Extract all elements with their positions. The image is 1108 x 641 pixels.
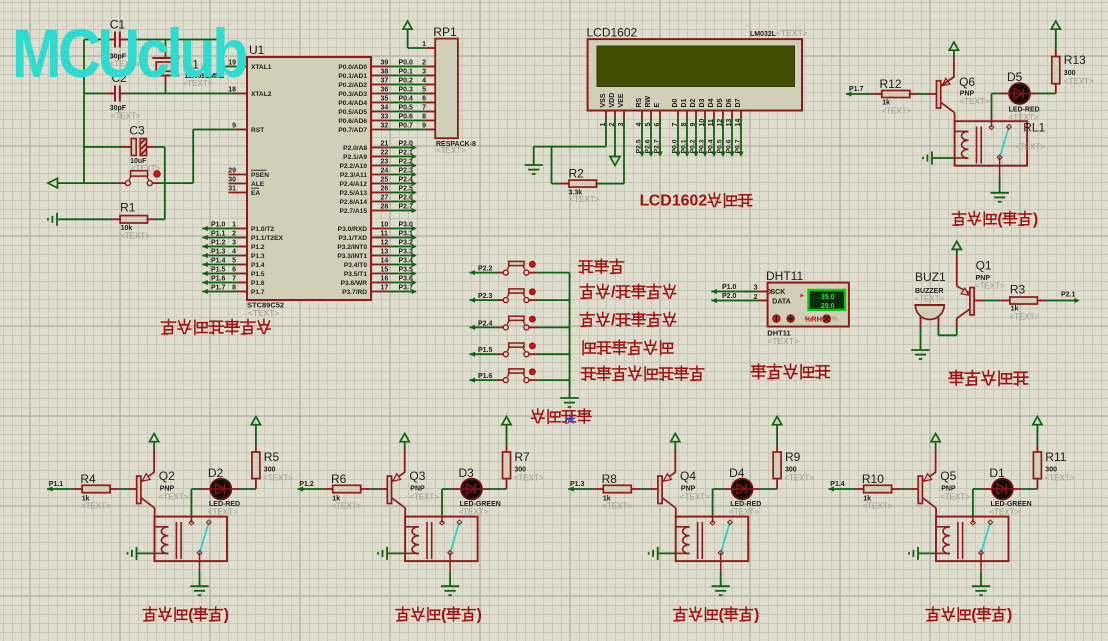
wire Q2 collector to relay [154,508,156,517]
wire C2 right / XTAL2 net [120,93,128,95]
svg-text:P1.4: P1.4 [211,257,226,264]
svg-text:P0.6/AD6: P0.6/AD6 [338,118,367,125]
svg-text:P1.6: P1.6 [478,373,493,380]
U1 pin 19 XTAL1 [238,66,247,68]
svg-text:/: / [611,312,616,329]
svg-text:PNP: PNP [681,486,696,493]
svg-text:P1.5: P1.5 [478,347,493,354]
caption 继电器(除湿) [926,607,939,621]
U1 pin 10 P3.0/RXD [371,228,390,230]
svg-text:4: 4 [232,248,236,255]
svg-text:8: 8 [232,284,236,291]
terminal P2.4 wire [470,325,476,330]
power terminal above Q1 [952,241,961,249]
transistor Q2 PNP [137,476,141,503]
capacitor C1 [114,32,116,48]
wire relay output to ground Q3 [449,572,451,585]
svg-text:2: 2 [232,230,236,237]
U1 pin 4 P1.3 [238,255,247,257]
power terminal above R5 [251,417,260,425]
U1 pin 28 P2.7/A15 [371,210,390,212]
wire net P3.2 [390,246,412,248]
svg-text:P0.1: P0.1 [681,139,688,153]
svg-text:0: 0 [690,192,699,209]
wire net P2.6 [390,201,412,203]
wire buttons common vertical [569,273,571,398]
wire Q1 emitter [956,255,958,286]
ground for LCD VSS [525,164,543,166]
svg-text:P2.6: P2.6 [399,194,414,201]
terminal P1.4 wire [202,262,208,267]
U1 pin 22 P2.1/A9 [371,156,390,158]
wire net P2.4 [390,183,412,185]
svg-text:P2.0: P2.0 [722,293,737,300]
wire D4 anode [713,488,724,490]
svg-text:P2.0/A8: P2.0/A8 [343,145,367,152]
svg-text:Q3: Q3 [409,469,425,483]
svg-text:<TEXT>: <TEXT> [1045,474,1075,483]
svg-text:PSEN: PSEN [251,172,269,179]
wire RL1 output to ground [999,177,1001,192]
wire Q3 emitter [404,449,406,472]
svg-text:1k: 1k [882,100,890,107]
svg-text:BUZ1: BUZ1 [915,270,946,284]
svg-text:22: 22 [381,149,389,156]
svg-text:Q1: Q1 [976,259,992,273]
svg-text:): ) [754,606,759,623]
wire P2.2 button to common [529,272,537,274]
svg-text:P2.2: P2.2 [478,266,493,273]
wire net P2.7 [390,210,412,212]
caption 继电器(加湿) [674,607,687,621]
svg-text:R6: R6 [331,472,347,486]
RP1 pin 2 [426,66,436,68]
wire LCD net P0.5 [722,119,724,153]
wire R1 right lead [148,218,157,220]
svg-text:17: 17 [381,284,389,291]
svg-text:P1.2: P1.2 [299,481,314,488]
svg-text:P3.7: P3.7 [399,284,414,291]
wire net P3.4 [390,264,412,266]
wire R11 to power [1036,446,1038,452]
svg-text:P3.4/T0: P3.4/T0 [344,262,367,269]
svg-text:/: / [611,284,616,301]
svg-text:PNP: PNP [941,486,956,493]
terminal P1.2 wire [202,244,208,249]
wire P2.4 button to common [529,326,537,328]
svg-text:25: 25 [381,176,389,183]
RP1 pin 5 [426,93,436,95]
wire C3 right lead to R1 column [147,146,156,148]
push button reset [125,181,130,186]
wire VSS-R2 junction column [551,147,553,184]
wire D5 cathode to R13 [1030,93,1038,95]
RP1 pin 3 [426,75,436,77]
svg-text:P1.1/T2EX: P1.1/T2EX [251,235,283,242]
wire Q6 emitter [953,58,955,77]
U1 pin 14 P3.4/T0 [371,264,390,266]
svg-text:<TEXT>: <TEXT> [1015,143,1045,152]
wire Q5 emitter [935,449,937,472]
wire net P3.0 [390,228,412,230]
svg-text:P2.1/A9: P2.1/A9 [343,154,367,161]
wire net P2.1 [390,156,412,158]
U1 pin 36 P0.3/AD3 [371,93,390,95]
U1 pin 30 ALE [229,183,248,185]
wire LCD VEE down to R2 [623,119,625,184]
wire LCD VDD to power [614,119,616,157]
svg-text:P2.7/A15: P2.7/A15 [340,208,368,215]
svg-text:R12: R12 [880,77,902,91]
power terminal above R7 [502,417,511,425]
svg-text:<TEXT>: <TEXT> [863,502,893,511]
caption 按键设置 [532,409,544,423]
svg-text:P2.6: P2.6 [645,139,652,153]
svg-text:P1.2: P1.2 [211,239,226,246]
svg-text:R10: R10 [862,472,884,486]
svg-text:R9: R9 [785,450,801,464]
wire net P0.6 U1 to RP1 [390,120,426,122]
svg-text:VEE: VEE [618,93,625,107]
push button for P2.4 [503,325,508,330]
wire R8 to Q4 base [631,488,641,490]
caption 蜂鸣器报警 [949,371,963,386]
svg-text:D7: D7 [735,98,742,107]
svg-text:4: 4 [422,77,426,84]
terminal P1.2 wire [298,486,304,491]
U1 pin 26 P2.5/A13 [371,192,390,194]
wire net P2.0 [390,147,412,149]
svg-text:P1.7: P1.7 [849,86,864,93]
svg-text:P3.7/RD: P3.7/RD [342,289,367,296]
svg-text:P0.3/AD3: P0.3/AD3 [338,91,367,98]
svg-text:<TEXT>: <TEXT> [940,493,970,502]
svg-text:35.0: 35.0 [821,294,835,301]
wire LCD net P2.7 [659,119,661,153]
svg-text:P2.5/A13: P2.5/A13 [340,190,368,197]
svg-text:P3.4: P3.4 [399,257,414,264]
wire R12 to Q6 base [910,93,918,95]
power terminal above Q4 [671,434,680,442]
svg-text:P3.1/TXD: P3.1/TXD [338,235,367,242]
U1 pin 6 P1.5 [238,273,247,275]
terminal P1.3 wire [202,253,208,258]
svg-text:VDD: VDD [609,93,616,108]
caption 继电器状态设置键 [581,368,595,380]
wire relay common to D1 [972,489,974,515]
relay for Q5 [936,517,1009,562]
svg-text:7: 7 [232,275,236,282]
svg-text:Q5: Q5 [940,469,956,483]
U1 pin 1 P1.0/T2 [238,228,247,230]
U1 pin 17 P3.7/RD [371,291,390,293]
RP1 pin 4 [426,84,436,86]
svg-text:E: E [654,103,661,108]
svg-text:38: 38 [381,68,389,75]
terminal P1.4 wire [829,486,835,491]
svg-text:P2.6/A14: P2.6/A14 [340,199,368,206]
svg-text:<TEXT>: <TEXT> [570,195,600,204]
terminal P2.3 wire [470,298,476,303]
power terminal above Q2 [150,434,159,442]
RP1 pin 9 [426,129,436,131]
wire D1 anode [973,488,984,490]
svg-text:R11: R11 [1045,450,1066,464]
wire net P2.5 [390,192,412,194]
svg-text:P0.5: P0.5 [717,139,724,153]
svg-text:R13: R13 [1064,53,1086,67]
DHT11 red marker arrow [800,294,804,298]
caption 设置键 [579,261,593,273]
svg-text:R8: R8 [602,472,618,486]
wire RP1 pin 1 [408,47,426,49]
wire LCD net P0.4 [713,119,715,153]
power terminal above R13 [1051,21,1060,29]
wire Q1 collector to buzzer [956,319,958,328]
power terminal above Q6 [949,42,958,50]
U1 pin 16 P3.6/WR [371,282,390,284]
svg-text:<TEXT>: <TEXT> [248,308,280,318]
svg-text:3: 3 [754,285,758,292]
caption 单片机最小系统 [161,320,175,335]
svg-text:26: 26 [381,185,389,192]
svg-text:R7: R7 [514,450,530,464]
svg-text:2: 2 [698,192,707,209]
terminal P2.1 wire [1037,300,1046,302]
ground tap for RL1 coil [931,152,933,165]
wire LCD net P2.6 [650,119,652,153]
resistor pack RP1 RESPACK-8 body [435,39,458,139]
svg-text:9: 9 [232,122,236,129]
RP1 pin 8 [426,120,436,122]
svg-text:P2.2: P2.2 [399,158,414,165]
svg-text:<TEXT>: <TEXT> [459,508,489,517]
U1 pin 38 P0.1/AD1 [371,75,390,77]
wire P1.5 button to common [529,353,537,355]
svg-text:6: 6 [232,266,236,273]
svg-text:P1.1: P1.1 [211,230,226,237]
svg-text:P3.6/WR: P3.6/WR [341,280,368,287]
wire C2 left to junction column [106,93,115,95]
svg-text:14: 14 [381,257,389,264]
terminal P1.1 wire [47,486,53,491]
svg-text:D0: D0 [672,98,679,107]
wire net P3.1 [390,237,412,239]
wire C3 left lead [122,146,131,148]
svg-text:9: 9 [422,122,426,129]
wire LCD net P0.6 [731,119,733,153]
svg-text:<TEXT>: <TEXT> [975,282,1005,291]
svg-text:P0.7: P0.7 [399,122,414,129]
wire reset rail [58,182,119,184]
svg-text:<TEXT>: <TEXT> [1009,113,1039,122]
svg-text:300: 300 [264,467,276,474]
svg-text:<TEXT>: <TEXT> [989,508,1019,517]
wire ground column for C1 C2 [83,40,85,184]
svg-text:<TEXT>: <TEXT> [602,502,632,511]
svg-text:RP1: RP1 [433,25,457,39]
U1 pin 34 P0.5/AD5 [371,111,390,113]
svg-text:39: 39 [381,59,389,66]
svg-text:<TEXT>: <TEXT> [881,107,911,116]
svg-text:35: 35 [381,95,389,102]
wire LCD net P0.2 [695,119,697,153]
svg-text:300: 300 [514,467,526,474]
svg-text:P3.3: P3.3 [399,248,414,255]
wire net P2.2 [390,165,412,167]
ground for relay Q4 [712,585,730,587]
caption 加键/模式切换 [580,284,594,298]
svg-text:ALE: ALE [251,181,265,188]
svg-text:7: 7 [422,104,426,111]
svg-text:33: 33 [381,113,389,120]
caption 减键/开启定时 [580,312,594,326]
svg-text:P2.5: P2.5 [399,185,414,192]
wire R6 to Q3 base [361,488,371,490]
svg-text:LM032L: LM032L [750,31,777,38]
IC U1 STC89C52 body [247,57,371,300]
wire R1 left to ground [111,218,120,220]
svg-text:2: 2 [422,59,426,66]
ground for R1 [56,213,58,226]
ground for relay Q2 [190,585,208,587]
svg-text:P0.7: P0.7 [735,139,742,153]
svg-text:): ) [477,606,482,623]
svg-text:P0.2: P0.2 [399,77,414,84]
svg-text:P3.6: P3.6 [399,275,414,282]
svg-text:<TEXT>: <TEXT> [263,474,293,483]
svg-text:P2.3: P2.3 [478,293,493,300]
wire relay output to ground Q4 [720,572,722,585]
svg-text:RL1: RL1 [1023,121,1045,135]
svg-text:P2.7: P2.7 [399,203,414,210]
svg-text:P0.4: P0.4 [399,95,414,102]
wire R10 to Q5 base [892,488,902,490]
wire C1 right / XTAL1 net [120,39,128,41]
svg-text:1: 1 [422,41,426,48]
ground tap for relay coil Q5 [917,547,919,560]
ground tap for relay coil Q4 [657,547,659,560]
wire P1.6 button to common [529,379,537,381]
power terminal above R11 [1033,417,1042,425]
svg-text:P1.7: P1.7 [211,284,226,291]
svg-text:11: 11 [381,230,389,237]
svg-text:R4: R4 [80,472,96,486]
wire net P0.4 U1 to RP1 [390,102,426,104]
svg-text:P0.5: P0.5 [399,104,414,111]
U1 pin 33 P0.6/AD6 [371,120,390,122]
svg-text:P1.0: P1.0 [722,284,737,291]
svg-text:P3.2/INT0: P3.2/INT0 [337,244,367,251]
svg-text:P1.3: P1.3 [251,253,265,260]
terminal P1.3 wire [568,486,574,491]
U1 pin 24 P2.3/A11 [371,174,390,176]
terminal P1.7 wire [846,91,852,96]
ground for buttons [560,397,578,399]
svg-text:<TEXT>: <TEXT> [159,493,189,502]
wire net P0.7 U1 to RP1 [390,129,426,131]
svg-text:<TEXT>: <TEXT> [514,474,544,483]
U1 pin 32 P0.7/AD7 [371,129,390,131]
DHT11 green display [809,290,846,310]
svg-text:P0.0: P0.0 [672,139,679,153]
svg-text:P0.6: P0.6 [399,113,414,120]
svg-text:P2.4: P2.4 [478,320,493,327]
wire LCD net P0.0 [677,119,679,153]
power terminal above Q3 [400,434,409,442]
svg-text:<TEXT>: <TEXT> [680,493,710,502]
wire Q4 emitter [674,449,676,472]
wire BUZ1 left to ground [920,316,922,327]
svg-text:P2.3/A11: P2.3/A11 [340,172,367,179]
svg-text:%RH: %RH [805,314,823,323]
svg-text:<TEXT>: <TEXT> [729,508,759,517]
svg-text:<TEXT>: <TEXT> [409,493,439,502]
svg-text:<TEXT>: <TEXT> [120,232,150,241]
svg-text:): ) [224,606,229,623]
wire D2 cathode to R5 [231,488,239,490]
svg-text:PNP: PNP [160,486,175,493]
svg-text:6: 6 [681,192,690,209]
wire net P3.5 [390,273,412,275]
wire Q4 collector to relay [675,508,677,517]
svg-text:XTAL2: XTAL2 [251,91,272,98]
svg-text:RS: RS [636,97,643,107]
svg-text:RST: RST [251,127,264,134]
wire net P3.6 [390,282,412,284]
terminal P1.7 wire [202,289,208,294]
svg-text:MCUclub: MCUclub [12,15,246,92]
svg-text:<TEXT>: <TEXT> [208,508,238,517]
terminal P2.0 wire to DHT11 DATA [711,298,717,303]
svg-text:RW: RW [645,96,652,108]
svg-text:<TEXT>: <TEXT> [332,502,362,511]
transistor Q4 PNP [658,476,662,503]
svg-text:P0.6: P0.6 [726,139,733,153]
svg-text:P0.5/AD5: P0.5/AD5 [338,109,367,116]
wire net P3.3 [390,255,412,257]
U1 pin 2 P1.1/T2EX [238,237,247,239]
svg-text:1k: 1k [1011,306,1019,313]
relay for Q3 [405,517,478,562]
svg-text:P0.7/AD7: P0.7/AD7 [338,127,367,134]
wire D5 anode [992,93,1001,95]
svg-text:XTAL1: XTAL1 [251,64,272,71]
svg-text:300: 300 [1064,70,1076,77]
svg-text:P0.0/AD0: P0.0/AD0 [338,64,367,71]
LCD screen [597,46,795,87]
relay RL1 [955,121,1028,166]
svg-text:5: 5 [422,86,426,93]
ground for relay Q5 [972,585,990,587]
svg-text:37: 37 [381,77,389,84]
svg-text:P1.0/T2: P1.0/T2 [251,226,274,233]
svg-text:29: 29 [228,167,236,174]
svg-text:P0.1/AD1: P0.1/AD1 [338,73,367,80]
wire relay common to D3 [441,489,443,515]
svg-text:29.0: 29.0 [821,303,835,310]
wire D3 anode [442,488,453,490]
svg-text:D5: D5 [717,98,724,107]
svg-text:2: 2 [754,294,758,301]
svg-text:LCD1602: LCD1602 [587,26,638,40]
wire Q1 base to R3 [974,300,983,302]
svg-text:P1.4: P1.4 [830,481,845,488]
relay for Q4 [676,517,749,562]
wire D1 cathode to R11 [1013,488,1021,490]
svg-text:P3.5: P3.5 [399,266,414,273]
terminal P2.2 wire [470,270,476,275]
